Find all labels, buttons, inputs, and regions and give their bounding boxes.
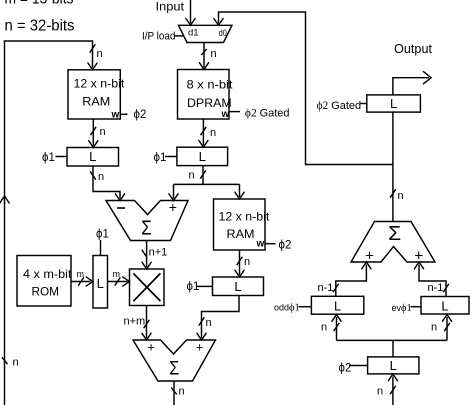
svg-text:ϕ1: ϕ1	[42, 152, 55, 164]
svg-text:n: n	[321, 322, 327, 334]
svg-text:I/P load: I/P load	[142, 31, 175, 43]
svg-text:oddϕ1: oddϕ1	[274, 303, 300, 314]
svg-text:RAM: RAM	[227, 227, 255, 241]
svg-text:L: L	[89, 149, 96, 164]
svg-text:n: n	[189, 170, 195, 182]
svg-text:n: n	[210, 127, 216, 139]
svg-text:L: L	[441, 299, 448, 314]
svg-text:Σ: Σ	[141, 217, 152, 239]
svg-text:n: n	[179, 386, 185, 398]
svg-text:n: n	[13, 357, 19, 369]
svg-text:Output: Output	[394, 42, 433, 56]
svg-text:+: +	[196, 340, 204, 355]
svg-text:m = 13-bits: m = 13-bits	[5, 0, 74, 8]
svg-text:ϕ2 Gated: ϕ2 Gated	[245, 108, 290, 120]
svg-text:L: L	[199, 149, 206, 164]
svg-text:w: w	[111, 110, 120, 121]
svg-text:d1: d1	[188, 28, 199, 39]
svg-text:Σ: Σ	[388, 223, 401, 245]
svg-text:12 x n-bit: 12 x n-bit	[219, 209, 270, 223]
svg-text:RAM: RAM	[82, 95, 110, 109]
svg-text:+: +	[414, 248, 423, 265]
svg-text:n: n	[206, 317, 212, 329]
svg-text:Σ: Σ	[169, 358, 179, 379]
svg-text:+: +	[365, 248, 374, 265]
svg-text:ϕ2 Gated: ϕ2 Gated	[317, 100, 362, 112]
svg-text:Input: Input	[156, 0, 185, 14]
svg-text:n+1: n+1	[149, 247, 168, 259]
svg-text:n: n	[431, 322, 437, 334]
svg-text:n-1: n-1	[428, 282, 444, 294]
svg-text:n: n	[398, 190, 404, 202]
svg-text:n = 32-bits: n = 32-bits	[5, 18, 75, 35]
svg-text:n: n	[97, 48, 103, 60]
svg-text:n: n	[211, 48, 217, 60]
svg-text:DPRAM: DPRAM	[187, 96, 232, 110]
svg-text:+: +	[147, 340, 155, 355]
svg-text:+: +	[169, 199, 177, 215]
svg-text:w: w	[221, 109, 230, 120]
svg-text:m: m	[77, 269, 85, 279]
svg-text:L: L	[334, 299, 341, 314]
svg-text:ϕ1: ϕ1	[96, 229, 109, 241]
svg-text:n: n	[377, 386, 383, 398]
svg-text:L: L	[390, 358, 397, 373]
svg-text:ϕ2: ϕ2	[134, 109, 147, 121]
svg-text:m: m	[113, 269, 121, 279]
svg-text:w: w	[256, 239, 265, 250]
svg-text:n: n	[98, 171, 104, 183]
svg-text:ϕ2: ϕ2	[279, 240, 292, 252]
svg-text:4 x m-bit: 4 x m-bit	[23, 267, 72, 281]
svg-text:ϕ1: ϕ1	[187, 281, 200, 293]
svg-text:8 x n-bit: 8 x n-bit	[187, 78, 234, 92]
svg-text:evϕ1: evϕ1	[392, 303, 412, 314]
svg-text:ϕ2: ϕ2	[339, 363, 352, 375]
svg-text:d0: d0	[219, 28, 227, 39]
svg-text:ROM: ROM	[32, 285, 60, 299]
svg-text:ϕ1: ϕ1	[154, 152, 167, 164]
svg-text:n-1: n-1	[318, 282, 334, 294]
svg-text:L: L	[97, 276, 104, 291]
svg-text:n+m: n+m	[124, 316, 146, 328]
svg-text:L: L	[234, 279, 241, 294]
svg-text:n: n	[244, 256, 250, 268]
svg-text:n: n	[100, 126, 106, 138]
svg-text:L: L	[390, 96, 397, 111]
svg-text:12 x n-bit: 12 x n-bit	[74, 76, 125, 90]
